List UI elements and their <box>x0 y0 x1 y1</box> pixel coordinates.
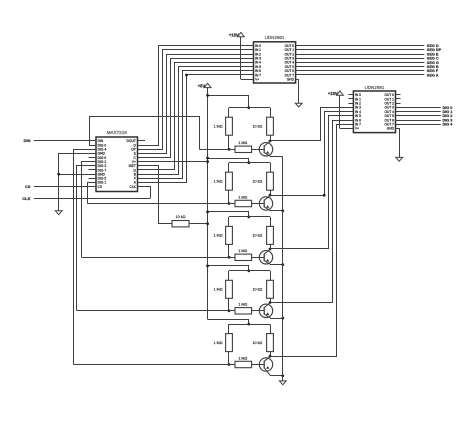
node CLK input <box>22 196 150 201</box>
wire +5V branch stage 3 <box>206 211 248 217</box>
node label SEG A <box>427 73 439 77</box>
U3 label UDN2981 <box>365 85 385 90</box>
node rail junction stage 1 <box>247 106 250 109</box>
wire SEG F from MAX7219 to U2 IN5 <box>138 67 254 175</box>
svg-text:CLK: CLK <box>22 196 30 201</box>
wire emitter stage 1 <box>270 156 283 158</box>
wire SEG D from MAX7219 to U2 IN0 <box>138 46 254 146</box>
resistor R13 1 MOhm base <box>235 249 252 260</box>
wire U2 OUT2 <box>296 54 425 56</box>
node label SEG E <box>427 52 439 56</box>
node label DIG 0 <box>443 106 453 110</box>
wire base feed stage 3 <box>82 257 235 259</box>
wire ISET <box>138 166 173 224</box>
resistor R9 1 MOhm pullup <box>214 324 233 364</box>
wire rail stage 3 <box>229 216 270 218</box>
wire stub U3 OUT1 <box>396 98 401 100</box>
wire U3 OUT7 <box>396 124 441 126</box>
wire emitter stage 5 <box>270 375 283 377</box>
resistor R15 1 MOhm base <box>235 356 252 367</box>
node emitter junction stage 2 <box>281 209 284 212</box>
transistor Q3 NPN <box>259 249 272 265</box>
svg-text:10 kΩ: 10 kΩ <box>253 234 263 238</box>
wire SEG A from MAX7219 to U2 IN6 <box>138 71 254 179</box>
node junction SEG A corner <box>185 74 188 77</box>
wire rail stage 4 <box>229 270 270 272</box>
node base node stage 2 <box>228 202 231 205</box>
transistor Q4 NPN <box>259 303 272 319</box>
node base node stage 4 <box>228 309 231 312</box>
wire DIG0 to stage 1 <box>90 117 200 150</box>
wire U3 OUT4 <box>396 111 441 113</box>
svg-text:1 MΩ: 1 MΩ <box>238 356 247 360</box>
node collector junction stage 5 <box>269 355 272 358</box>
node label DIG 2 <box>443 114 453 118</box>
svg-text:GND: GND <box>287 78 295 82</box>
wire +5V distribution column <box>207 88 209 320</box>
svg-text:1 MΩ: 1 MΩ <box>214 234 223 238</box>
wire U2 OUT5 <box>296 66 425 68</box>
wire stub U3 IN1 <box>348 98 353 100</box>
svg-text:V+: V+ <box>355 127 359 131</box>
wire U3 OUT3 <box>396 107 441 109</box>
ground for U2 <box>295 103 302 107</box>
wire rail stage 1 <box>229 107 270 109</box>
power +18V supply for U3 <box>328 91 353 129</box>
wire collector stage 3 to U3 <box>271 116 354 249</box>
wire base feed stage 2 <box>87 203 235 205</box>
svg-text:1 MΩ: 1 MΩ <box>214 288 223 292</box>
node V+ junction <box>206 160 209 163</box>
resistor R6 10 kOhm collector <box>253 217 274 249</box>
svg-text:GND: GND <box>387 127 395 131</box>
svg-text:1 MΩ: 1 MΩ <box>238 141 247 145</box>
node label SEG D <box>427 44 439 48</box>
svg-text:CLK: CLK <box>129 185 136 189</box>
wire ISET resistor to +5V <box>189 223 208 225</box>
power +5V supply <box>198 83 211 88</box>
wire stub DIG5 <box>89 178 97 180</box>
node rail junction stage 2 <box>247 161 250 164</box>
wire DIG2 to stage 3 <box>82 162 97 258</box>
svg-text:SEG A: SEG A <box>427 73 439 77</box>
node GND junction <box>57 173 60 176</box>
svg-text:DIN: DIN <box>24 138 31 143</box>
resistor R2 10 kOhm collector <box>253 108 274 141</box>
wire SEG B from MAX7219 to U2 IN4 <box>138 63 254 170</box>
wire DIG4 to stage 5 <box>74 150 97 365</box>
wire collector stage 4 to U3 <box>271 121 354 303</box>
wire U2 OUT3 <box>296 58 425 60</box>
svg-text:V+: V+ <box>255 78 259 82</box>
wire base feed stage 1 <box>200 149 236 151</box>
resistor R1 1 MOhm pullup <box>214 108 233 150</box>
node label DIG 3 <box>443 118 453 122</box>
wire U2 OUT6 <box>296 70 425 72</box>
node CS input <box>25 184 96 189</box>
resistor R10 10 kOhm collector <box>253 324 274 356</box>
wire stub DIG7 <box>89 169 97 171</box>
resistor R12 1 MOhm base <box>235 195 252 206</box>
svg-text:1 MΩ: 1 MΩ <box>214 341 223 345</box>
wire U2 OUT7 <box>296 74 425 76</box>
node collector junction stage 1 <box>269 140 272 143</box>
svg-text:MAX7219: MAX7219 <box>107 130 128 135</box>
svg-text:1 MΩ: 1 MΩ <box>214 125 223 129</box>
node emitter junction stage 3 <box>281 263 284 266</box>
svg-text:10 kΩ: 10 kΩ <box>176 215 186 219</box>
wire emitter bus to ground <box>282 157 284 381</box>
svg-text:CS: CS <box>25 184 31 189</box>
IC U1 MAX7219 LED display driver <box>96 137 138 192</box>
svg-text:UDN2981: UDN2981 <box>365 85 385 90</box>
wire base resistor to Q5 <box>252 364 265 366</box>
power +18V supply for U2 <box>229 32 254 79</box>
node label SEG DP <box>427 48 442 52</box>
resistor R4 10 kOhm collector <box>253 163 274 196</box>
wire collector stage 5 to U3 <box>271 125 354 357</box>
transistor Q5 NPN <box>259 356 272 376</box>
resistor R7 1 MOhm pullup <box>214 271 233 311</box>
wire base feed stage 5 <box>74 364 236 366</box>
wire SEG CLK from MAX7219 to U2 IN7 <box>138 75 254 183</box>
node emitter junction stage 4 <box>281 317 284 320</box>
wire +5V branch stage 4 <box>206 265 248 271</box>
wire U2 OUT1 <box>296 49 425 51</box>
wire +5V branch stage 5 <box>208 320 249 325</box>
wire collector stage 1 to U3 <box>271 108 354 141</box>
wire U2 GND <box>296 80 299 104</box>
svg-text:CS: CS <box>98 185 103 189</box>
wire SEG E from MAX7219 to U2 IN2 <box>138 55 254 154</box>
node base node stage 1 <box>228 148 231 151</box>
node label SEG B <box>427 65 439 69</box>
wire MAX7219 V+ to +5V <box>138 161 208 163</box>
IC U2 UDN2981 source driver <box>254 42 296 83</box>
ground for emitters <box>279 381 286 385</box>
svg-text:1 MΩ: 1 MΩ <box>238 195 247 199</box>
transistor Q1 NPN <box>259 141 272 157</box>
svg-text:10 kΩ: 10 kΩ <box>253 125 263 129</box>
svg-text:1 MΩ: 1 MΩ <box>214 180 223 184</box>
wire U3 OUT6 <box>396 120 441 122</box>
wire MAX7219 GND pin4 <box>59 154 97 211</box>
node ISET +5V junction <box>206 222 209 225</box>
wire stub DOUT <box>138 140 146 142</box>
U1 label MAX7219 <box>107 130 128 135</box>
wire stub U3 OUT0 <box>396 94 401 96</box>
svg-text:1 MΩ: 1 MΩ <box>238 249 247 253</box>
node rail junction stage 4 <box>247 269 250 272</box>
node collector junction stage 2 <box>269 194 272 197</box>
node emitter junction stage 5 <box>281 374 284 377</box>
resistor R5 1 MOhm pullup <box>214 217 233 257</box>
node collector junction stage 4 <box>269 301 272 304</box>
node riser junction stage 2 <box>323 194 326 197</box>
node base node stage 5 <box>228 363 231 366</box>
ground for MAX7219 <box>55 211 62 215</box>
wire base feed stage 4 <box>77 310 236 312</box>
wire U3 OUT5 <box>396 115 441 117</box>
svg-text:10 kΩ: 10 kΩ <box>253 180 263 184</box>
node label SEG F <box>427 69 439 73</box>
wire SEG C from MAX7219 to U2 IN3 <box>138 59 254 158</box>
resistor R12 10 kOhm ISET <box>172 215 189 227</box>
node rail junction stage 3 <box>247 216 250 219</box>
wire stub U3 OUT2 <box>396 103 401 105</box>
node label DIG 4 <box>443 123 454 127</box>
wire base resistor to Q2 <box>252 203 265 205</box>
wire rail stage 2 <box>229 162 270 164</box>
node label DIG 1 <box>443 110 453 114</box>
transistor Q2 NPN <box>259 195 272 211</box>
U2 label UDN2981 <box>265 35 285 40</box>
wire +5V branch stage 1 <box>206 94 248 108</box>
wire collector stage 2 to U3 <box>271 112 354 196</box>
node rail junction stage 5 <box>247 323 250 326</box>
svg-text:UDN2981: UDN2981 <box>265 35 285 40</box>
wire base resistor to Q3 <box>252 257 265 259</box>
wire emitter stage 3 <box>270 264 283 266</box>
svg-text:10 kΩ: 10 kΩ <box>253 341 263 345</box>
svg-text:10 kΩ: 10 kΩ <box>253 288 263 292</box>
wire CLK to MAX7219 pin 13 <box>138 187 151 199</box>
resistor R14 1 MOhm base <box>235 303 252 314</box>
resistor R11 1 MOhm base <box>235 141 252 152</box>
node label SEG C <box>427 57 439 61</box>
wire +5V branch stage 2 <box>206 157 248 163</box>
wire stub DIG6 <box>89 157 97 159</box>
wire U2 OUT0 <box>296 45 425 47</box>
node label SEG G <box>427 61 439 65</box>
IC U3 UDN2981 source driver <box>353 91 395 133</box>
wire DIG3 to stage 4 <box>77 166 97 311</box>
resistor R3 1 MOhm pullup <box>214 163 233 204</box>
wire stub U3 IN2 <box>348 103 353 105</box>
node DIN input <box>24 138 96 143</box>
ground for U3 <box>396 157 403 161</box>
wire rail stage 5 <box>229 324 270 326</box>
wire DIG1 to stage 2 <box>88 183 97 204</box>
wire emitter stage 4 <box>270 318 283 320</box>
wire stub U3 IN0 <box>348 94 353 96</box>
wire base resistor to Q1 <box>252 149 265 151</box>
wire emitter stage 2 <box>270 210 283 212</box>
wire base resistor to Q4 <box>252 310 265 312</box>
node base node stage 3 <box>228 256 231 259</box>
svg-text:1 MΩ: 1 MΩ <box>238 303 247 307</box>
node collector junction stage 3 <box>269 248 272 251</box>
wire SEG DP from MAX7219 to U2 IN1 <box>138 50 254 150</box>
svg-text:DIG 4: DIG 4 <box>443 123 454 127</box>
resistor R8 10 kOhm collector <box>253 271 274 303</box>
wire MAX7219 GND pin9 <box>59 174 96 176</box>
wire U3 GND <box>396 129 400 158</box>
wire U2 OUT4 <box>296 62 425 64</box>
